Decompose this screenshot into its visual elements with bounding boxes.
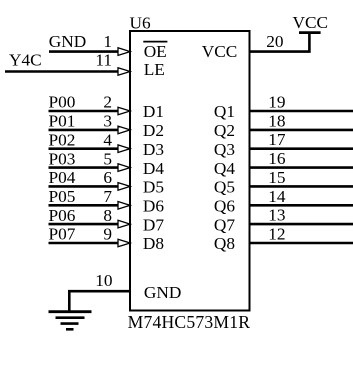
- node P05 net label: [49, 187, 76, 206]
- pin VCC label (inside): [202, 42, 238, 61]
- svg-text:6: 6: [103, 168, 112, 187]
- pin 15 wire (Q5 output): [250, 185, 353, 188]
- svg-text:11: 11: [95, 51, 112, 70]
- pin Q8 label: [214, 234, 235, 253]
- pin 6 input arrow: [118, 183, 130, 191]
- svg-text:Y4C: Y4C: [9, 51, 42, 70]
- pin D1 label: [143, 102, 164, 121]
- svg-text:Q2: Q2: [214, 121, 235, 140]
- pin number 4: [103, 130, 112, 149]
- pin number 14: [268, 187, 286, 206]
- svg-text:Q7: Q7: [214, 215, 235, 234]
- svg-text:12: 12: [268, 225, 285, 244]
- pin 16 wire (Q4 output): [250, 166, 353, 169]
- svg-text:P07: P07: [49, 225, 76, 244]
- pin D8 label: [143, 234, 164, 253]
- pin D2 label: [143, 121, 164, 140]
- value label M74HC573M1R: [128, 312, 251, 332]
- svg-text:5: 5: [103, 149, 112, 168]
- pin 1 input arrow: [118, 48, 130, 56]
- pin 11 input arrow: [118, 68, 130, 76]
- pin 14 wire (Q6 output): [250, 204, 353, 207]
- node VCC net label (top): [293, 13, 329, 32]
- pin 1 wire (OE input from GND net): [49, 50, 119, 53]
- svg-text:D6: D6: [143, 197, 164, 216]
- node P01 net label: [49, 112, 76, 131]
- pin Q7 label: [214, 215, 235, 234]
- pin number 3: [103, 112, 112, 131]
- pin number 12: [268, 225, 285, 244]
- pin number 8: [103, 206, 112, 225]
- pin 20 wire (VCC supply): [250, 33, 310, 52]
- node Y4C net label (pin 11): [9, 51, 42, 70]
- pin number 5: [103, 149, 112, 168]
- pin OE label (inside, with overline): [143, 42, 167, 61]
- node P00 net label: [49, 93, 76, 112]
- svg-text:D5: D5: [143, 178, 164, 197]
- pin 5 input arrow: [118, 164, 130, 172]
- pin 7 wire (D6 from P05): [49, 204, 119, 207]
- svg-text:17: 17: [268, 130, 286, 149]
- svg-text:D3: D3: [143, 140, 164, 159]
- svg-text:GND: GND: [49, 32, 86, 51]
- pin 4 input arrow: [118, 145, 130, 153]
- pin 12 wire (Q8 output): [250, 242, 353, 245]
- svg-text:P02: P02: [49, 130, 76, 149]
- pin number 1: [103, 32, 112, 51]
- pin 4 wire (D3 from P02): [49, 147, 119, 150]
- pin number 6: [103, 168, 112, 187]
- svg-text:9: 9: [103, 225, 112, 244]
- svg-text:Q4: Q4: [214, 159, 235, 178]
- svg-text:18: 18: [268, 111, 285, 130]
- pin 8 input arrow: [118, 220, 130, 228]
- svg-text:1: 1: [103, 32, 112, 51]
- pin 6 wire (D5 from P04): [49, 185, 119, 188]
- svg-text:D7: D7: [143, 215, 164, 234]
- pin Q5 label: [214, 178, 235, 197]
- pin Q6 label: [214, 197, 235, 216]
- svg-text:LE: LE: [144, 60, 165, 79]
- pin 10 wire (GND): [69, 291, 130, 311]
- node P07 net label: [49, 225, 76, 244]
- pin number 10: [95, 271, 112, 290]
- pin 5 wire (D4 from P03): [49, 166, 119, 169]
- pin number 19: [268, 93, 285, 112]
- svg-text:15: 15: [268, 168, 285, 187]
- pin number 2: [103, 93, 112, 112]
- svg-text:P04: P04: [49, 168, 76, 187]
- pin D3 label: [143, 140, 164, 159]
- pin 13 wire (Q7 output): [250, 223, 353, 226]
- pin D6 label: [143, 197, 164, 216]
- pin 3 wire (D2 from P01): [49, 129, 119, 132]
- pin number 15: [268, 168, 285, 187]
- svg-text:P01: P01: [49, 112, 76, 131]
- svg-text:GND: GND: [144, 283, 181, 302]
- svg-text:Q6: Q6: [214, 197, 235, 216]
- pin 19 wire (Q1 output): [250, 110, 353, 113]
- U6 reference designator label: [130, 13, 151, 32]
- svg-text:7: 7: [103, 187, 112, 206]
- pin number 9: [103, 225, 112, 244]
- svg-text:13: 13: [268, 206, 285, 225]
- svg-text:D4: D4: [143, 159, 164, 178]
- svg-text:M74HC573M1R: M74HC573M1R: [128, 312, 251, 332]
- pin Q3 label: [214, 140, 235, 159]
- pin number 20: [266, 32, 283, 51]
- svg-text:VCC: VCC: [293, 13, 329, 32]
- pin 8 wire (D7 from P06): [49, 223, 119, 226]
- svg-text:P05: P05: [49, 187, 76, 206]
- pin number 18: [268, 111, 285, 130]
- svg-text:3: 3: [103, 112, 112, 131]
- svg-text:10: 10: [95, 271, 112, 290]
- pin 11 wire (LE input from Y4C net): [5, 70, 119, 73]
- pin 9 wire (D8 from P07): [49, 242, 119, 245]
- node GND net label (pin 1): [49, 32, 86, 51]
- pin number 11: [95, 51, 112, 70]
- svg-text:4: 4: [103, 130, 112, 149]
- svg-text:D1: D1: [143, 102, 164, 121]
- node P04 net label: [49, 168, 76, 187]
- pin D5 label: [143, 178, 164, 197]
- pin number 16: [268, 149, 286, 168]
- svg-text:16: 16: [268, 149, 286, 168]
- svg-text:P06: P06: [49, 206, 76, 225]
- pin D7 label: [143, 215, 164, 234]
- power symbol VCC (bar): [299, 31, 321, 34]
- svg-text:D2: D2: [143, 121, 164, 140]
- pin D4 label: [143, 159, 164, 178]
- pin 18 wire (Q2 output): [250, 129, 353, 132]
- svg-text:Q5: Q5: [214, 178, 235, 197]
- pin Q1 label: [214, 102, 235, 121]
- svg-text:Q8: Q8: [214, 234, 235, 253]
- pin LE label (inside): [144, 60, 165, 79]
- pin 2 input arrow: [118, 107, 130, 115]
- pin 2 wire (D1 from P00): [49, 110, 119, 113]
- svg-text:Q1: Q1: [214, 102, 235, 121]
- svg-text:VCC: VCC: [202, 42, 238, 61]
- pin 17 wire (Q3 output): [250, 147, 353, 150]
- ground symbol: [49, 312, 92, 330]
- pin GND label (inside): [144, 283, 181, 302]
- svg-text:U6: U6: [130, 13, 151, 32]
- svg-text:20: 20: [266, 32, 283, 51]
- svg-text:OE: OE: [144, 42, 167, 61]
- pin 9 input arrow: [118, 239, 130, 247]
- pin number 13: [268, 206, 285, 225]
- op-amp U6 body (latch IC rectangle): [130, 31, 250, 311]
- node P02 net label: [49, 130, 76, 149]
- svg-text:P00: P00: [49, 93, 76, 112]
- node P03 net label: [49, 149, 76, 168]
- pin Q2 label: [214, 121, 235, 140]
- pin Q4 label: [214, 159, 235, 178]
- pin 3 input arrow: [118, 126, 130, 134]
- svg-text:P03: P03: [49, 149, 76, 168]
- svg-text:19: 19: [268, 93, 285, 112]
- pin number 17: [268, 130, 286, 149]
- svg-text:8: 8: [103, 206, 112, 225]
- svg-text:14: 14: [268, 187, 286, 206]
- svg-text:D8: D8: [143, 234, 164, 253]
- pin 7 input arrow: [118, 202, 130, 210]
- pin number 7: [103, 187, 112, 206]
- svg-text:2: 2: [103, 93, 112, 112]
- svg-text:Q3: Q3: [214, 140, 235, 159]
- node P06 net label: [49, 206, 76, 225]
